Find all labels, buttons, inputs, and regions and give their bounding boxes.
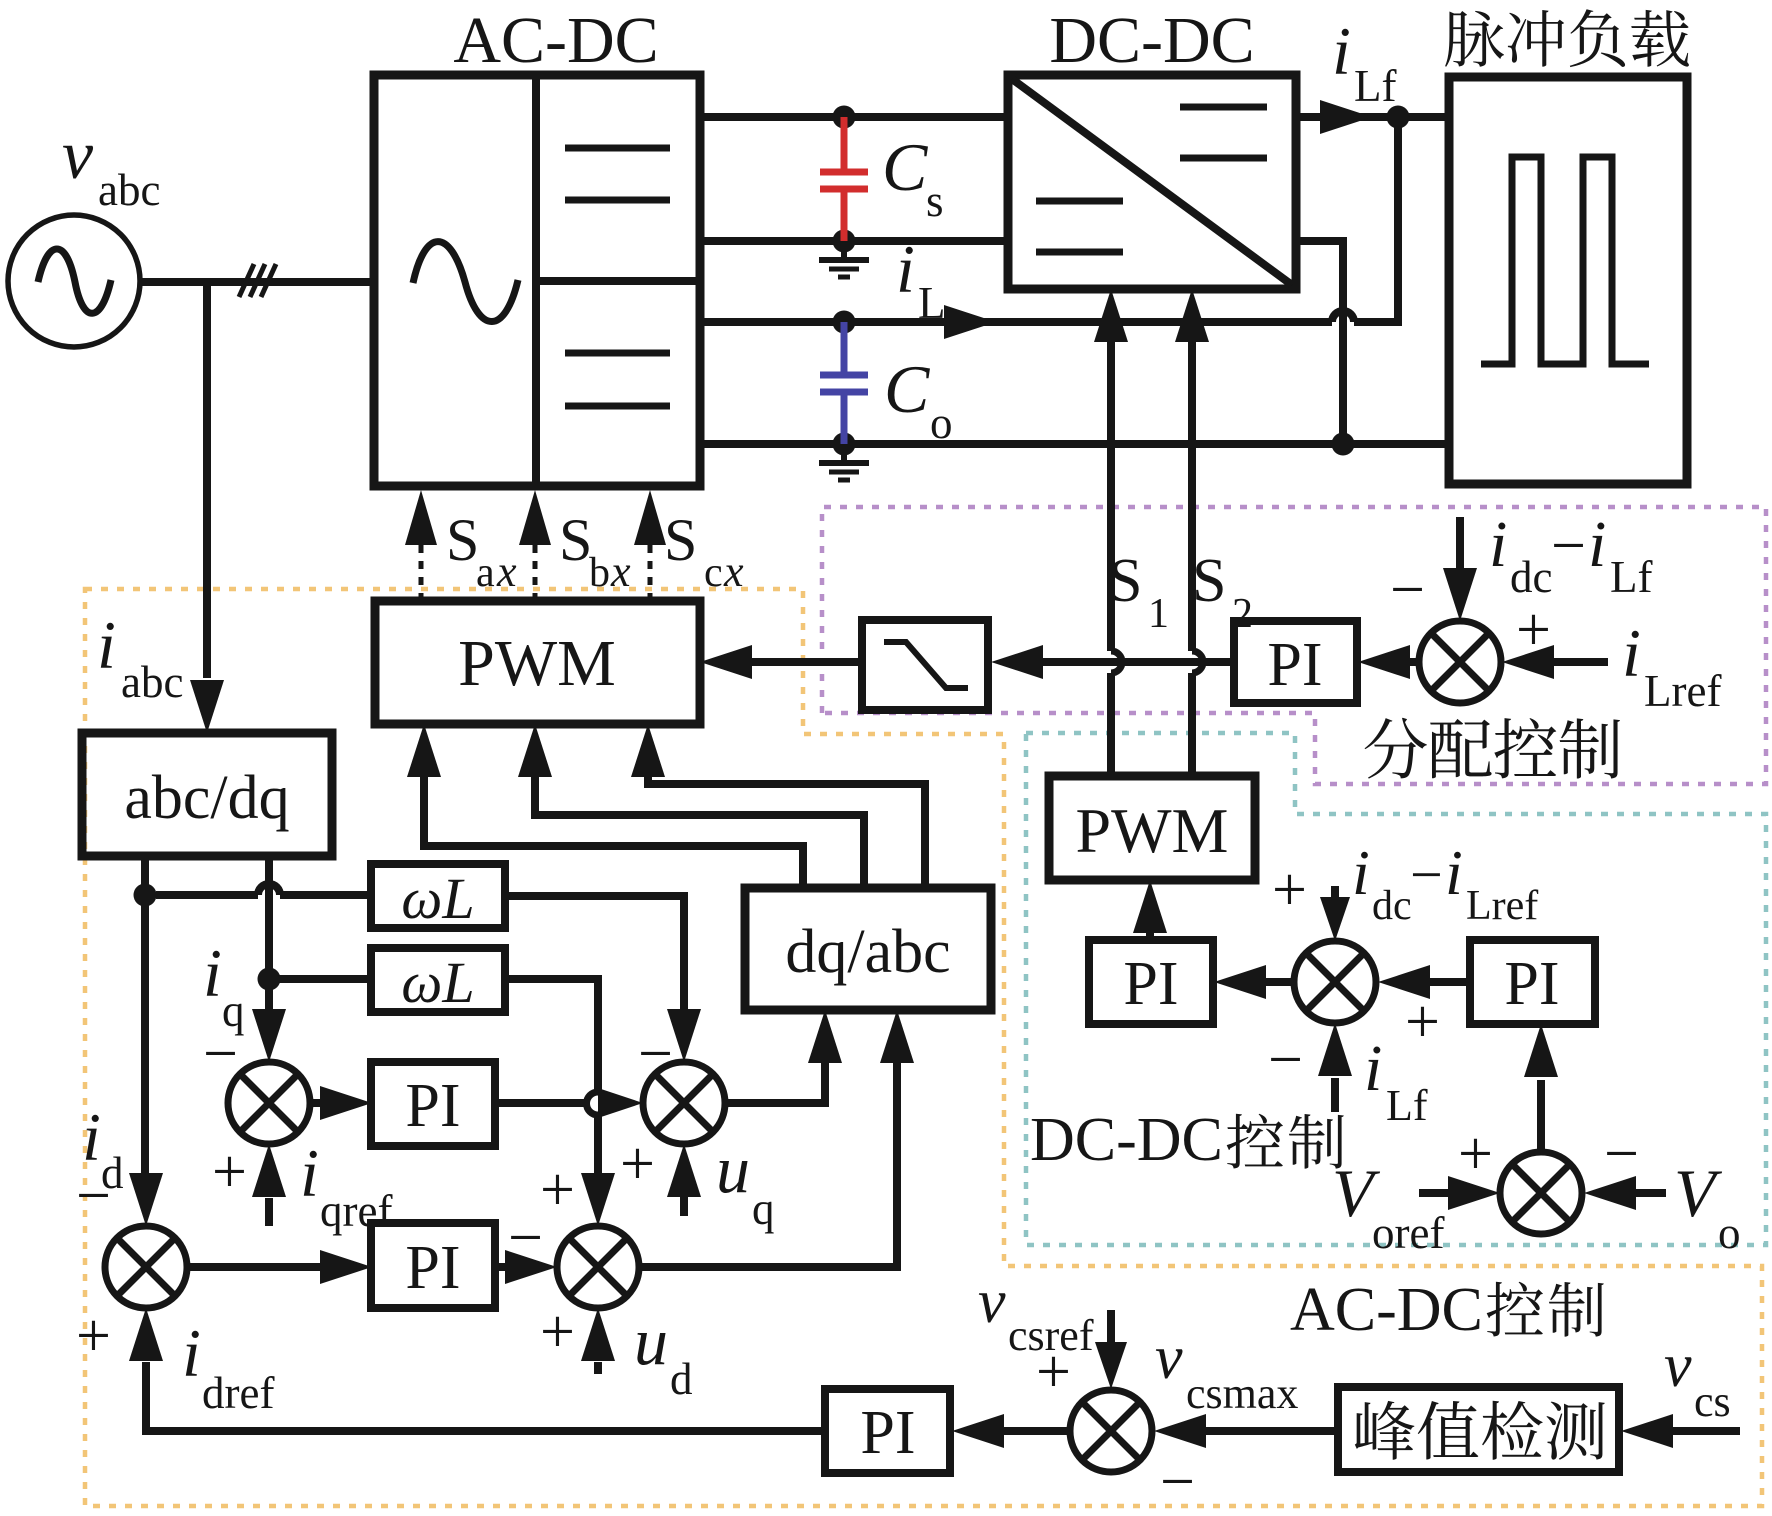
svg-text:x: x: [610, 547, 631, 596]
svg-text:i: i: [1352, 837, 1370, 908]
svg-text:−: −: [1604, 1120, 1639, 1188]
svg-text:AC-DC: AC-DC: [1290, 1276, 1483, 1344]
svg-text:PI: PI: [1504, 950, 1559, 1018]
svg-text:cs: cs: [1694, 1377, 1731, 1426]
svg-text:PI: PI: [405, 1072, 460, 1140]
svg-text:i: i: [97, 607, 116, 683]
svg-text:v: v: [978, 1268, 1006, 1336]
svg-text:PI: PI: [860, 1399, 915, 1467]
svg-text:oref: oref: [1372, 1208, 1444, 1258]
svg-text:DC-DC: DC-DC: [1049, 4, 1254, 77]
svg-text:x: x: [496, 547, 517, 596]
svg-text:1: 1: [1148, 591, 1169, 637]
svg-text:v: v: [1664, 1332, 1692, 1400]
svg-text:PI: PI: [405, 1234, 460, 1302]
svg-text:dq/abc: dq/abc: [785, 918, 950, 986]
svg-text:i: i: [1364, 1032, 1382, 1105]
svg-text:−: −: [1551, 512, 1586, 580]
svg-text:Lref: Lref: [1466, 883, 1538, 929]
svg-text:i: i: [182, 1315, 201, 1391]
svg-text:−: −: [1160, 1448, 1195, 1516]
svg-text:−: −: [76, 1162, 111, 1230]
svg-text:o: o: [930, 398, 953, 448]
svg-text:−: −: [508, 1204, 543, 1272]
svg-text:DC-DC: DC-DC: [1030, 1106, 1223, 1174]
svg-text:+: +: [76, 1302, 111, 1370]
svg-text:+: +: [540, 1156, 575, 1224]
svg-text:S: S: [664, 507, 697, 573]
svg-text:abc/dq: abc/dq: [124, 764, 289, 832]
svg-text:i: i: [203, 935, 222, 1011]
svg-text:a: a: [476, 550, 495, 596]
svg-text:csmax: csmax: [1186, 1369, 1298, 1418]
svg-text:S: S: [559, 507, 592, 573]
svg-text:u: u: [716, 1131, 750, 1207]
svg-text:S: S: [1108, 547, 1142, 615]
svg-text:+: +: [212, 1138, 247, 1206]
svg-text:+: +: [1405, 988, 1440, 1056]
svg-text:abc: abc: [121, 657, 183, 707]
svg-text:x: x: [723, 547, 744, 596]
svg-text:S: S: [1192, 547, 1226, 615]
svg-text:+: +: [1272, 856, 1307, 924]
svg-text:o: o: [1718, 1208, 1741, 1258]
svg-text:Lf: Lf: [1386, 1081, 1428, 1130]
svg-text:s: s: [926, 176, 944, 226]
svg-text:PWM: PWM: [1076, 795, 1229, 866]
svg-text:dref: dref: [202, 1368, 274, 1418]
svg-text:PI: PI: [1267, 631, 1322, 699]
svg-text:+: +: [1458, 1120, 1493, 1188]
svg-text:S: S: [446, 507, 479, 573]
svg-text:Lf: Lf: [1354, 61, 1396, 111]
svg-text:qref: qref: [320, 1186, 392, 1236]
svg-text:dc: dc: [1510, 552, 1552, 602]
svg-text:b: b: [589, 550, 610, 596]
svg-text:ωL: ωL: [401, 950, 474, 1015]
svg-text:+: +: [540, 1298, 575, 1366]
svg-text:i: i: [300, 1135, 319, 1211]
svg-text:v: v: [62, 117, 94, 194]
svg-text:i: i: [1332, 13, 1351, 89]
svg-text:C: C: [882, 129, 928, 205]
svg-text:Lref: Lref: [1644, 666, 1721, 716]
svg-text:i: i: [1588, 508, 1606, 581]
svg-text:−: −: [1410, 842, 1443, 907]
svg-text:−: −: [1390, 556, 1425, 624]
svg-text:i: i: [1489, 508, 1507, 581]
svg-text:PWM: PWM: [458, 627, 616, 700]
svg-text:v: v: [1155, 1324, 1183, 1392]
svg-text:Lf: Lf: [1610, 552, 1652, 602]
svg-text:L: L: [918, 278, 946, 328]
svg-text:csref: csref: [1008, 1311, 1094, 1360]
svg-text:i: i: [1445, 837, 1463, 908]
svg-text:dc: dc: [1372, 883, 1412, 929]
svg-text:q: q: [752, 1184, 775, 1234]
svg-text:i: i: [896, 231, 915, 307]
svg-text:C: C: [884, 351, 930, 427]
svg-text:ωL: ωL: [401, 866, 474, 931]
svg-text:−: −: [1268, 1026, 1303, 1094]
svg-text:c: c: [704, 550, 723, 596]
svg-text:u: u: [634, 1303, 668, 1379]
svg-text:abc: abc: [98, 165, 160, 215]
svg-text:i: i: [1622, 615, 1641, 691]
svg-text:AC-DC: AC-DC: [453, 4, 658, 77]
svg-text:PI: PI: [1123, 950, 1178, 1018]
svg-text:+: +: [620, 1130, 655, 1198]
svg-text:d: d: [670, 1354, 693, 1404]
